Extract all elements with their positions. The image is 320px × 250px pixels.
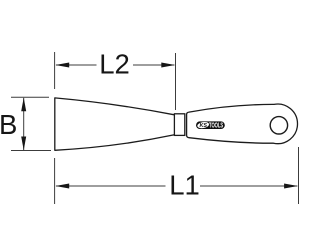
- blade: [55, 98, 175, 150]
- dimension B line: [23, 98, 25, 150]
- dimension L1 extension line left: [54, 158, 56, 204]
- svg-text:L2: L2: [99, 49, 130, 80]
- ferrule: [174, 114, 184, 136]
- dimension L1 arrow right: [284, 184, 298, 189]
- dimension B arrow up: [21, 98, 26, 112]
- dimension L2 extension line right: [175, 53, 177, 110]
- dimension L2 line left segment: [56, 64, 97, 66]
- dimension L2 arrow right: [161, 63, 175, 68]
- dimension B extension line top: [11, 96, 49, 98]
- svg-text:KS: KS: [199, 123, 207, 129]
- KS logo oval: [197, 121, 210, 129]
- dimension L2 arrow left: [55, 63, 69, 68]
- dimension L1 line right segment: [200, 185, 297, 187]
- svg-text:TOOLS: TOOLS: [209, 123, 223, 130]
- svg-text:L1: L1: [169, 170, 200, 201]
- dimension B arrow down: [21, 137, 26, 151]
- dimension L1 extension line right: [298, 147, 300, 204]
- handle: [187, 104, 298, 144]
- handle hole: [270, 117, 287, 134]
- dimension L2 extension line left: [54, 52, 56, 89]
- svg-text:B: B: [0, 109, 17, 140]
- dimension L2 line right segment: [133, 64, 174, 66]
- KS Tools logo pill: [196, 121, 225, 129]
- dimension L1 line left segment: [56, 185, 166, 187]
- dimension L1 arrow left: [55, 184, 69, 189]
- dimension B extension line bottom: [11, 150, 51, 152]
